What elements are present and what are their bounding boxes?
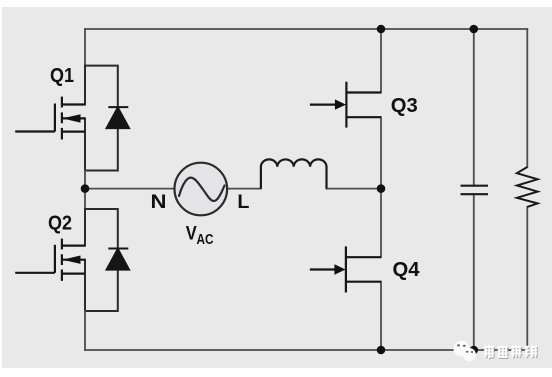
wire capacitor branch lower xyxy=(473,194,475,350)
wire Q1 diode bottom connector xyxy=(85,128,118,170)
wire top bus to Q3 drain xyxy=(380,29,382,93)
svg-text:N: N xyxy=(151,192,167,213)
node top at Q3 branch xyxy=(377,25,386,34)
watermark text 电源漫谈 (stroke mimic, gray shadow layer) xyxy=(485,346,538,359)
svg-text:Q1: Q1 xyxy=(50,65,74,87)
transistor Q4 gate arrow xyxy=(334,264,345,274)
transistor Q3 (MOSFET simplified) xyxy=(310,82,381,128)
wire bottom bus xyxy=(85,349,527,351)
wire Q2 source to bottom bus xyxy=(84,311,86,350)
svg-text:Q3: Q3 xyxy=(391,95,418,117)
wire Q1 drain segment xyxy=(84,66,86,105)
wire mid node to AC source xyxy=(85,188,175,190)
svg-text:Q2: Q2 xyxy=(48,212,72,234)
AC source sine wave xyxy=(179,178,225,201)
wire mid node to Q2 diode tap xyxy=(84,189,86,209)
wire inductor to right mid node xyxy=(327,188,382,190)
capacitor C1 plates xyxy=(461,186,489,195)
svg-text:V: V xyxy=(186,224,197,245)
wire Q2 drain segment xyxy=(84,209,86,246)
watermark chat icon bubble 2 xyxy=(463,348,476,361)
transistor Q4 (MOSFET simplified) xyxy=(310,246,381,292)
diode D2 (Q2 body diode) xyxy=(107,249,129,270)
AC source VAC circle xyxy=(175,163,228,216)
node right mid xyxy=(377,184,386,193)
wire Q2 diode top connector xyxy=(85,209,118,249)
transistor Q1 body arrow xyxy=(62,114,80,122)
transistor Q2 body arrow xyxy=(62,256,80,264)
wire Q1 diode top connector xyxy=(85,66,118,108)
watermark chat icon bubble 1 xyxy=(454,341,470,357)
transistor Q2 (MOSFET) xyxy=(15,239,85,281)
wire mid node to Q4 drain xyxy=(380,189,382,258)
svg-text:AC: AC xyxy=(197,232,214,248)
transistor Q3 gate arrow xyxy=(335,99,346,109)
wire AC source to inductor xyxy=(227,188,261,190)
node bottom at capacitor branch xyxy=(470,346,479,355)
wire Q1 source to mid node xyxy=(84,171,86,189)
svg-text:Q4: Q4 xyxy=(393,259,421,281)
wire capacitor branch upper xyxy=(473,29,475,186)
wire Q4 source to bottom bus xyxy=(380,282,382,350)
inductor L1 xyxy=(261,159,327,188)
resistor R1 zigzag xyxy=(517,167,538,207)
wire Q1 source segment xyxy=(84,118,86,170)
node bottom at Q4 branch xyxy=(377,346,386,355)
node top at capacitor branch xyxy=(470,25,479,34)
svg-text:L: L xyxy=(237,192,249,213)
wire top bus xyxy=(85,28,527,30)
node left mid xyxy=(81,184,90,193)
diode D1 (Q1 body diode) xyxy=(107,107,129,128)
transistor Q1 (MOSFET) xyxy=(15,97,85,140)
wire Q3 source to mid node xyxy=(380,117,382,188)
wire resistor branch lower xyxy=(526,207,528,350)
watermark text 电源漫谈 (white strokes) xyxy=(484,345,537,358)
wire left bus upper (top wire to Q1 diode tap) xyxy=(84,29,86,66)
wire resistor branch upper xyxy=(526,29,528,167)
wire Q2 source segment xyxy=(84,260,86,311)
wire Q2 diode bottom connector xyxy=(85,270,118,311)
